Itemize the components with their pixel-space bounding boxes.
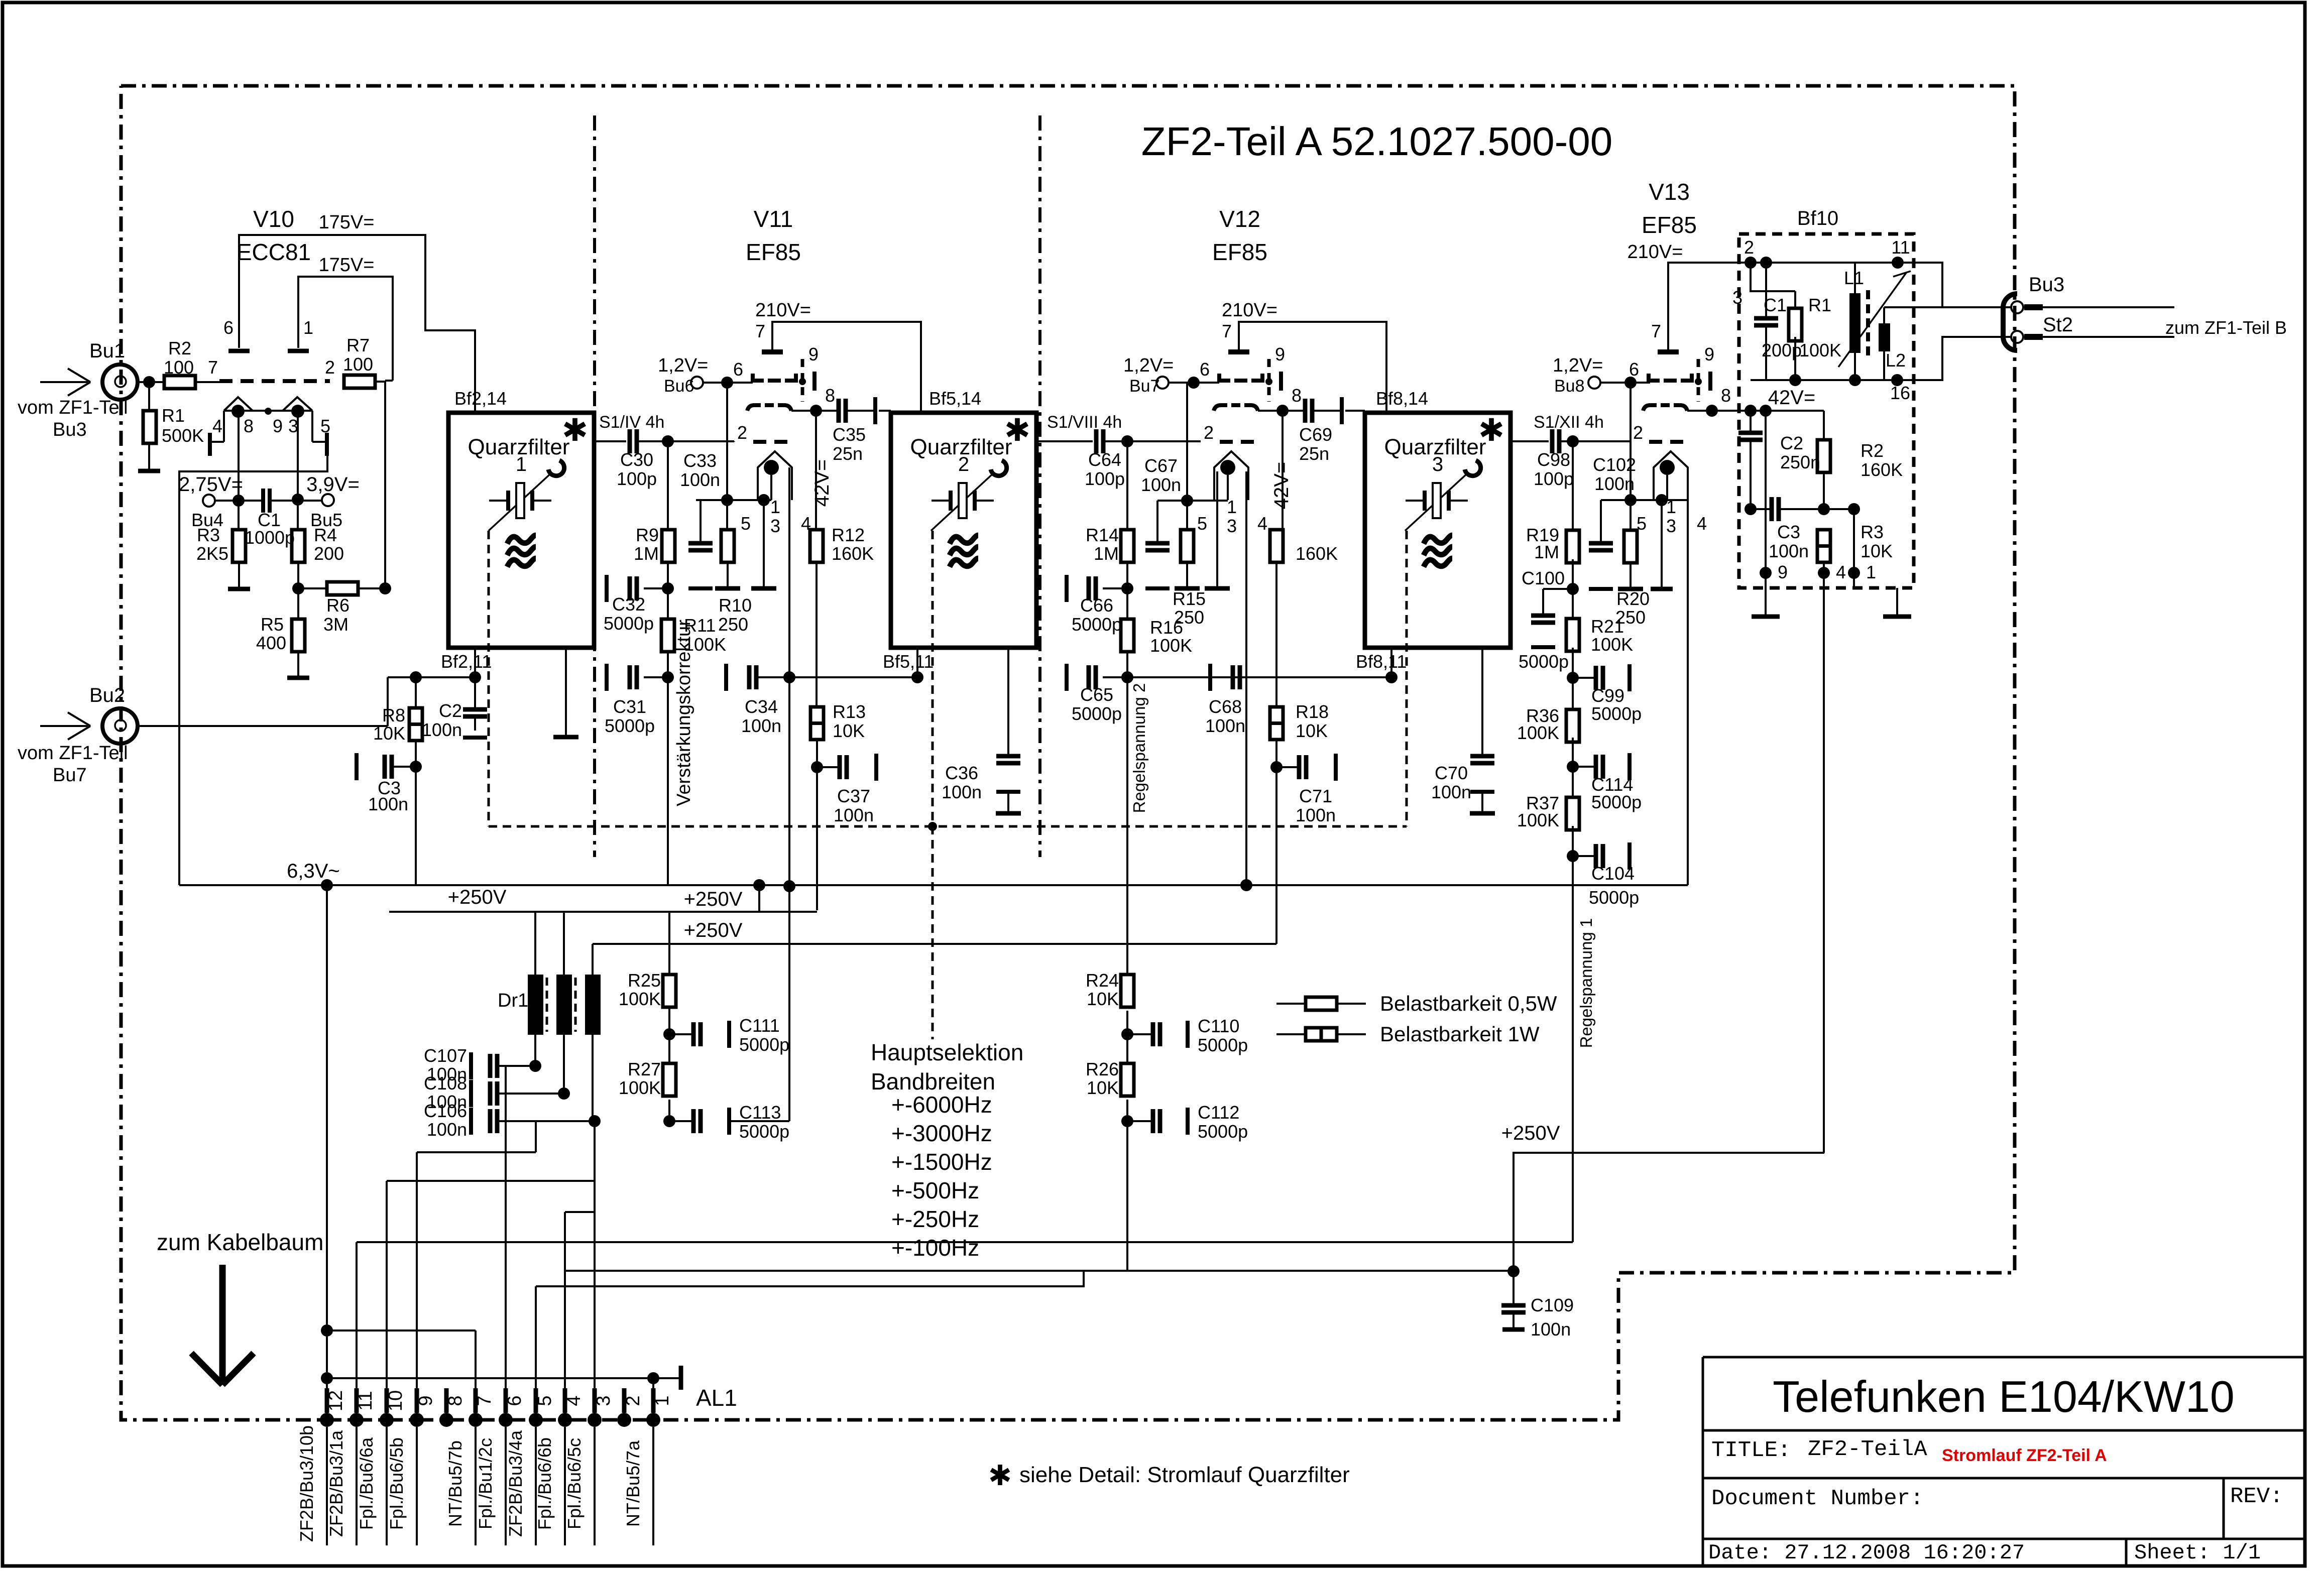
svg-text:Sheet: 1/1: Sheet: 1/1 bbox=[2134, 1541, 2261, 1565]
svg-text:✱: ✱ bbox=[988, 1460, 1012, 1491]
input arrow at Bu1 bbox=[40, 381, 88, 383]
connector Bu5 bbox=[322, 494, 334, 506]
resistor R19 bbox=[1572, 441, 1574, 530]
svg-text:4: 4 bbox=[1257, 513, 1267, 534]
node C114 bbox=[1567, 761, 1579, 773]
svg-text:5000p: 5000p bbox=[1072, 614, 1122, 635]
svg-text:100n: 100n bbox=[1531, 1319, 1571, 1340]
svg-text:7: 7 bbox=[474, 1395, 495, 1406]
svg-text:C110: C110 bbox=[1198, 1016, 1239, 1036]
svg-text:S1/VIII 4h: S1/VIII 4h bbox=[1047, 413, 1122, 432]
svg-text:1M: 1M bbox=[634, 543, 659, 564]
svg-text:R18: R18 bbox=[1296, 701, 1329, 722]
svg-text:C102: C102 bbox=[1593, 454, 1636, 475]
svg-text:210V=: 210V= bbox=[1222, 300, 1277, 321]
wire R7 to R6 bbox=[374, 381, 385, 383]
svg-text:C64: C64 bbox=[1088, 449, 1121, 470]
wire pin9 riser bbox=[416, 1152, 418, 1420]
resistor R25 bbox=[668, 912, 670, 975]
svg-text:100p: 100p bbox=[1534, 468, 1574, 489]
node C32/R9/R11 bbox=[662, 582, 674, 594]
svg-text:+-3000Hz: +-3000Hz bbox=[891, 1120, 992, 1146]
capacitor C32 bbox=[644, 587, 668, 589]
input arrow at Bu2 bbox=[40, 725, 88, 727]
svg-text:250: 250 bbox=[718, 614, 748, 635]
svg-text:Bu3: Bu3 bbox=[53, 419, 87, 440]
svg-text:100K: 100K bbox=[1517, 810, 1559, 830]
svg-text:R3: R3 bbox=[197, 525, 220, 545]
capacitor C65 bbox=[1103, 676, 1127, 678]
svg-text:vom ZF1-Teil: vom ZF1-Teil bbox=[18, 397, 128, 418]
svg-text:Bu2: Bu2 bbox=[89, 684, 125, 706]
svg-text:42V=: 42V= bbox=[1768, 387, 1816, 409]
capacitor C70 under QF3 bbox=[1481, 648, 1483, 756]
capacitor C1 bbox=[261, 489, 265, 513]
node C99/R21 bbox=[1567, 672, 1579, 684]
wire Bu2 to riser bbox=[138, 725, 388, 727]
ground bar under R15 bbox=[1175, 586, 1200, 591]
wire pin6 riser bbox=[505, 1066, 507, 1420]
svg-text:Bu6: Bu6 bbox=[664, 377, 694, 396]
capacitor C1 Bf10 bbox=[1765, 263, 1767, 318]
resistor R1 bbox=[148, 382, 150, 411]
grid3 row bbox=[1649, 374, 1660, 381]
resistor R18 bbox=[1270, 707, 1283, 740]
house lead ground V13 bbox=[1661, 500, 1663, 589]
pin bars bbox=[2024, 304, 2043, 310]
ground under R1 bbox=[138, 469, 160, 473]
node C100/R19/R21 bbox=[1567, 583, 1579, 595]
svg-text:C71: C71 bbox=[1299, 786, 1332, 806]
capacitor C64 bbox=[1094, 429, 1099, 453]
svg-text:4: 4 bbox=[212, 416, 222, 436]
svg-text:5: 5 bbox=[1197, 513, 1207, 534]
svg-text:6: 6 bbox=[504, 1395, 525, 1406]
svg-text:C100: C100 bbox=[1522, 568, 1565, 588]
trimmer diagonal QF3 bbox=[1405, 472, 1468, 531]
svg-text:6: 6 bbox=[733, 359, 743, 380]
svg-text:2: 2 bbox=[1633, 422, 1643, 443]
svg-text:25n: 25n bbox=[1299, 443, 1329, 464]
AL1 chassis wire bbox=[327, 1377, 653, 1379]
riser Bu7 to R15 bbox=[1186, 383, 1188, 530]
svg-text:1: 1 bbox=[770, 497, 780, 517]
V10 cathode triode A bbox=[224, 397, 253, 411]
svg-text:R4: R4 bbox=[314, 525, 337, 545]
QF3 bottom pin lead Bf8,11 bbox=[1390, 648, 1392, 677]
resistor R1 Bf10 bbox=[1794, 291, 1796, 308]
svg-text:100: 100 bbox=[164, 357, 194, 378]
svg-text:5000p: 5000p bbox=[739, 1034, 789, 1055]
wavy filter symbol QF1 bbox=[507, 535, 536, 544]
riser Bu6/g3 to R10 bbox=[726, 383, 728, 530]
svg-text:EF85: EF85 bbox=[746, 239, 801, 265]
wire pin11 riser bbox=[356, 1242, 358, 1420]
svg-text:100K: 100K bbox=[619, 989, 661, 1009]
svg-text:Bf2,14: Bf2,14 bbox=[454, 388, 507, 409]
svg-text:Fpl./Bu6/5b: Fpl./Bu6/5b bbox=[386, 1437, 407, 1530]
dash-dot circuit boundary frame bbox=[121, 86, 2015, 1420]
crystal symbol QF3 bbox=[1406, 500, 1425, 502]
svg-text:+250V: +250V bbox=[448, 886, 507, 908]
svg-text:Fpl./Bu6/6b: Fpl./Bu6/6b bbox=[534, 1437, 555, 1530]
wire 210V rail V12 to QF3 bbox=[1239, 322, 1386, 413]
svg-text:7: 7 bbox=[1651, 321, 1661, 341]
svg-text:2: 2 bbox=[1204, 422, 1214, 443]
trimmer diagonal QF2 bbox=[931, 472, 994, 531]
wire pin1 riser bbox=[652, 1378, 654, 1420]
svg-text:100n: 100n bbox=[1205, 715, 1245, 736]
svg-text:+-1500Hz: +-1500Hz bbox=[891, 1149, 992, 1175]
svg-text:ZF2-TeilA: ZF2-TeilA bbox=[1808, 1437, 1927, 1462]
svg-text:Regelspannung 1: Regelspannung 1 bbox=[1577, 918, 1595, 1048]
svg-text:C106: C106 bbox=[424, 1101, 467, 1121]
legend 1W resistor bbox=[1276, 1033, 1306, 1035]
svg-text:V11: V11 bbox=[754, 206, 793, 232]
svg-text:100p: 100p bbox=[617, 468, 657, 489]
svg-text:EF85: EF85 bbox=[1212, 239, 1267, 265]
capacitor C66 bbox=[1103, 587, 1127, 589]
svg-text:R6: R6 bbox=[326, 595, 350, 616]
svg-text:3: 3 bbox=[1732, 287, 1742, 308]
capacitor C69 bbox=[1283, 410, 1305, 412]
house wire V12 bbox=[1157, 500, 1228, 502]
svg-text:4: 4 bbox=[1836, 562, 1846, 582]
svg-text:25n: 25n bbox=[833, 443, 863, 464]
mid cathode node bbox=[265, 408, 272, 415]
AL1 pin 4 bbox=[558, 1413, 572, 1427]
wire Bf8,11 row bbox=[1127, 676, 1391, 678]
capacitor C3 Bf10 bbox=[1751, 508, 1772, 510]
svg-text:✱: ✱ bbox=[562, 413, 588, 448]
svg-text:8: 8 bbox=[445, 1395, 466, 1406]
wire pin10 riser bbox=[386, 1181, 388, 1420]
svg-text:7: 7 bbox=[208, 357, 218, 378]
resistor R11 bbox=[667, 588, 669, 619]
svg-text:7: 7 bbox=[1222, 321, 1232, 341]
svg-text:8: 8 bbox=[825, 385, 835, 406]
svg-text:R15: R15 bbox=[1173, 588, 1206, 609]
beam plate bar bbox=[1279, 372, 1283, 391]
svg-text:R7: R7 bbox=[346, 335, 370, 355]
cathode house bbox=[1214, 451, 1248, 500]
V10 grid dashed line pins 7/2 bbox=[219, 379, 330, 383]
resistor R6 bbox=[298, 587, 327, 589]
+250V rail A bbox=[389, 911, 817, 913]
Quarzfilter1 bottom pin lead bbox=[474, 649, 476, 677]
svg-text:R1: R1 bbox=[1808, 295, 1831, 315]
svg-text:C112: C112 bbox=[1198, 1102, 1239, 1123]
+250V wire bottom bbox=[1514, 1153, 1824, 1271]
svg-text:Bf5,11: Bf5,11 bbox=[883, 651, 934, 672]
connector Bu4 bbox=[203, 495, 215, 507]
AL1 pin 12 bbox=[320, 1413, 334, 1427]
title block outline bbox=[1702, 1357, 1704, 1566]
svg-text:C32: C32 bbox=[612, 594, 645, 615]
pin 1 lead bbox=[1853, 509, 1855, 573]
svg-text:zum ZF1-Teil B: zum ZF1-Teil B bbox=[2165, 317, 2287, 338]
svg-text:R16: R16 bbox=[1150, 617, 1183, 638]
node at Bu1/R1 bbox=[143, 376, 155, 388]
resistor R26 bbox=[1126, 1034, 1128, 1063]
pin8 node V11 bbox=[810, 405, 822, 417]
resistor R5 bbox=[297, 588, 299, 619]
node C111 bbox=[663, 1028, 675, 1040]
svg-text:C34: C34 bbox=[745, 696, 778, 717]
svg-text:1: 1 bbox=[1866, 562, 1876, 582]
svg-text:R1: R1 bbox=[162, 405, 185, 426]
svg-text:R25: R25 bbox=[628, 970, 661, 991]
capacitor C111 bbox=[669, 1033, 693, 1035]
inductor L2 bbox=[1879, 323, 1890, 351]
node wire Bf10 top bbox=[1739, 262, 1898, 264]
svg-text:Dr1: Dr1 bbox=[498, 990, 528, 1011]
resistor R20 bbox=[1624, 530, 1637, 563]
svg-text:R27: R27 bbox=[628, 1059, 661, 1079]
capacitor C2 Bf10 bbox=[1750, 411, 1752, 433]
ground under R3 bbox=[228, 587, 250, 591]
Dr1 winding leads bbox=[534, 912, 536, 975]
svg-text:R21: R21 bbox=[1591, 616, 1624, 637]
svg-text:C2: C2 bbox=[439, 700, 462, 721]
node C3 row bbox=[1745, 503, 1757, 515]
svg-text:Bf8,14: Bf8,14 bbox=[1376, 388, 1428, 409]
svg-text:5000p: 5000p bbox=[605, 715, 655, 736]
svg-text:1,2V=: 1,2V= bbox=[658, 355, 708, 376]
connector Bu3/St2 bracket bbox=[2003, 294, 2017, 350]
svg-text:C98: C98 bbox=[1537, 449, 1570, 470]
node C112 bbox=[1121, 1115, 1133, 1127]
node C31/R11 bbox=[662, 671, 674, 683]
svg-text:Bu8: Bu8 bbox=[1554, 377, 1585, 396]
ground bar under R10 bbox=[715, 586, 740, 591]
svg-text:R8: R8 bbox=[382, 705, 405, 725]
wavy filter symbol QF3 bbox=[1424, 535, 1452, 544]
resistor R9 bbox=[667, 441, 669, 530]
Quarzfilter 2 box bbox=[891, 413, 1036, 648]
svg-text:Bf10: Bf10 bbox=[1797, 207, 1838, 229]
svg-text:Verstärkungskorrektur: Verstärkungskorrektur bbox=[673, 620, 694, 806]
wire Bu1 to R2 bbox=[138, 381, 164, 383]
svg-text:5: 5 bbox=[741, 513, 751, 534]
svg-text:✱: ✱ bbox=[1478, 413, 1504, 448]
resistor R14 bbox=[1126, 441, 1128, 530]
connector Bu1 bbox=[102, 365, 138, 400]
svg-text:NT/Bu5/7a: NT/Bu5/7a bbox=[623, 1440, 643, 1527]
svg-text:vom ZF1-Teil: vom ZF1-Teil bbox=[18, 743, 128, 764]
svg-text:8: 8 bbox=[1292, 385, 1302, 406]
cathode arcs bbox=[1643, 405, 1657, 411]
svg-text:C67: C67 bbox=[1144, 455, 1178, 476]
AL1 pin 1 bbox=[646, 1413, 660, 1427]
svg-text:Fpl./Bu6/5c: Fpl./Bu6/5c bbox=[564, 1438, 585, 1529]
svg-text:Belastbarkeit 1W: Belastbarkeit 1W bbox=[1380, 1022, 1540, 1046]
variable arrow bbox=[1838, 272, 1907, 367]
svg-text:C69: C69 bbox=[1299, 424, 1332, 445]
svg-text:L2: L2 bbox=[1886, 350, 1906, 371]
wire pin3 riser bbox=[594, 1121, 596, 1420]
resistor 160K screen V12 bbox=[1282, 411, 1284, 530]
svg-text:Bu7: Bu7 bbox=[53, 765, 87, 786]
Bf10 bottom rail bbox=[1751, 379, 1897, 381]
svg-text:2: 2 bbox=[958, 453, 969, 475]
svg-text:175V=: 175V= bbox=[319, 212, 375, 233]
Quarzfilter 1 box bbox=[448, 413, 594, 648]
svg-text:100: 100 bbox=[343, 354, 373, 375]
svg-text:2: 2 bbox=[737, 422, 747, 443]
svg-text:100K: 100K bbox=[619, 1077, 661, 1098]
QF2 bottom pin lead Bf5,11 bbox=[916, 648, 918, 677]
pin8 node V12 bbox=[1276, 405, 1289, 417]
svg-text:C2: C2 bbox=[1780, 433, 1803, 453]
svg-text:5000p: 5000p bbox=[739, 1121, 789, 1142]
svg-text:5000p: 5000p bbox=[1519, 651, 1569, 672]
svg-text:R5: R5 bbox=[261, 614, 284, 635]
svg-text:ZF2-Teil A 52.1027.500-00: ZF2-Teil A 52.1027.500-00 bbox=[1141, 119, 1612, 164]
resistor R15 bbox=[1181, 530, 1194, 562]
capacitor C31 bbox=[644, 676, 668, 678]
svg-text:100n: 100n bbox=[741, 715, 781, 736]
svg-text:1: 1 bbox=[516, 453, 527, 475]
svg-text:C108: C108 bbox=[424, 1073, 467, 1094]
svg-text:100n: 100n bbox=[422, 719, 462, 740]
node R4/R5/R6 bbox=[292, 582, 304, 594]
wire pin5 riser bbox=[535, 1286, 537, 1420]
svg-text:C33: C33 bbox=[683, 450, 717, 471]
capacitor C99 bbox=[1573, 677, 1596, 679]
svg-text:5: 5 bbox=[534, 1395, 555, 1406]
svg-text:Date: 27.12.2008 16:20:27: Date: 27.12.2008 16:20:27 bbox=[1708, 1541, 2025, 1565]
svg-text:9: 9 bbox=[1778, 562, 1788, 582]
svg-text:100n: 100n bbox=[834, 805, 874, 825]
capacitor C34 bbox=[747, 665, 752, 689]
svg-text:5000p: 5000p bbox=[1198, 1121, 1248, 1142]
svg-text:1: 1 bbox=[303, 317, 313, 338]
core dashes bbox=[1866, 290, 1870, 356]
svg-text:5000p: 5000p bbox=[1589, 887, 1639, 908]
C1 riser bbox=[1751, 263, 1795, 291]
svg-text:NT/Bu5/7b: NT/Bu5/7b bbox=[445, 1440, 466, 1527]
resistor R2 bbox=[164, 376, 195, 389]
resistor R3 Bf10 bbox=[1817, 530, 1830, 562]
svg-text:10K: 10K bbox=[1087, 989, 1119, 1009]
capacitor C98 bbox=[1550, 429, 1555, 453]
hook QF2 bbox=[991, 460, 1007, 476]
svg-text:C68: C68 bbox=[1209, 696, 1242, 717]
node C104 bbox=[1567, 850, 1579, 862]
QF1 ground pin bbox=[565, 648, 567, 737]
svg-text:C35: C35 bbox=[833, 424, 866, 445]
dashed enclosure bottom bbox=[489, 825, 1407, 828]
svg-text:R14: R14 bbox=[1086, 525, 1119, 545]
svg-text:100p: 100p bbox=[1085, 468, 1125, 489]
svg-text:C111: C111 bbox=[739, 1015, 780, 1036]
svg-text:TITLE:: TITLE: bbox=[1711, 1438, 1791, 1463]
svg-text:ECC81: ECC81 bbox=[237, 239, 311, 265]
svg-text:100K: 100K bbox=[1591, 634, 1633, 655]
svg-text:100n: 100n bbox=[368, 794, 408, 814]
svg-text:160K: 160K bbox=[1861, 459, 1903, 480]
grid3 dashed lead bbox=[801, 359, 804, 402]
svg-text:100K: 100K bbox=[1517, 722, 1559, 743]
svg-text:10K: 10K bbox=[1087, 1077, 1119, 1098]
Bu3 pin circle bbox=[2011, 301, 2023, 313]
capacitor C112 bbox=[1127, 1120, 1153, 1122]
resistor R10 bbox=[721, 530, 734, 562]
svg-text:+-250Hz: +-250Hz bbox=[891, 1206, 979, 1232]
wire pin4 riser bbox=[564, 1212, 566, 1420]
capacitor C30 bbox=[628, 429, 632, 453]
beam plate bar bbox=[1708, 372, 1712, 391]
svg-text:EF85: EF85 bbox=[1642, 212, 1697, 238]
svg-text:160K: 160K bbox=[1296, 543, 1338, 564]
svg-text:100n: 100n bbox=[942, 782, 982, 802]
dash-dot section divider 2 bbox=[1038, 115, 1041, 857]
svg-text:1,2V=: 1,2V= bbox=[1553, 355, 1603, 376]
node C66/R14/R16 bbox=[1121, 582, 1133, 594]
svg-text:3: 3 bbox=[593, 1395, 614, 1406]
+250V rail B bbox=[593, 943, 1276, 945]
AL1 pin 8 bbox=[439, 1413, 453, 1427]
svg-text:9: 9 bbox=[1275, 344, 1285, 365]
return wire to AL1 pin 11 bbox=[357, 1241, 1573, 1243]
svg-text:4: 4 bbox=[563, 1395, 585, 1406]
svg-text:C99: C99 bbox=[1591, 685, 1624, 706]
resistor R4 bbox=[297, 411, 299, 530]
beam plate bar bbox=[812, 372, 817, 391]
svg-text:+-100Hz: +-100Hz bbox=[891, 1235, 979, 1261]
svg-text:8: 8 bbox=[244, 416, 254, 436]
svg-text:Stromlauf ZF2-Teil A: Stromlauf ZF2-Teil A bbox=[1942, 1446, 2107, 1465]
trimmer diagonal QF1 bbox=[489, 472, 552, 531]
svg-text:C113: C113 bbox=[739, 1102, 781, 1123]
capacitor C104 bbox=[1573, 855, 1596, 857]
grid3 dashed lead bbox=[1697, 359, 1700, 402]
svg-text:R13: R13 bbox=[833, 701, 866, 722]
+250V riser from pin 4 bbox=[1823, 573, 1825, 1153]
wire Bf2,11 bbox=[388, 676, 475, 678]
svg-text:100n: 100n bbox=[1594, 473, 1635, 494]
dashed line QF2 to Hauptselektion bbox=[932, 531, 934, 1039]
capacitor C114 bbox=[1573, 766, 1596, 768]
svg-text:400: 400 bbox=[256, 633, 286, 653]
svg-text:Bu1: Bu1 bbox=[89, 340, 125, 362]
svg-text:10K: 10K bbox=[1861, 541, 1893, 561]
svg-text:R2: R2 bbox=[168, 338, 191, 358]
cathode house bbox=[1654, 451, 1688, 500]
svg-text:2: 2 bbox=[1744, 237, 1754, 258]
svg-text:6: 6 bbox=[223, 317, 234, 338]
svg-text:S1/IV 4h: S1/IV 4h bbox=[599, 413, 664, 432]
svg-text:100n: 100n bbox=[427, 1119, 467, 1140]
node R6 right bbox=[379, 582, 391, 594]
crystal symbol QF1 bbox=[489, 500, 508, 502]
dash-dot section divider 1 bbox=[593, 115, 596, 857]
svg-text:C31: C31 bbox=[613, 696, 646, 717]
svg-text:Bf5,14: Bf5,14 bbox=[929, 388, 981, 409]
resistor R24 bbox=[1121, 975, 1134, 1007]
svg-text:Bu3: Bu3 bbox=[2029, 274, 2064, 296]
cathode tail to pin8 bbox=[791, 410, 816, 412]
svg-text:S1/XII 4h: S1/XII 4h bbox=[1534, 413, 1604, 432]
grid3 dashed lead bbox=[1267, 359, 1271, 402]
Regelspannung 1 wire down bbox=[1572, 856, 1574, 1242]
svg-text:Bf2,11: Bf2,11 bbox=[441, 651, 492, 672]
big down arrow bbox=[219, 1265, 226, 1382]
svg-text:100K: 100K bbox=[1799, 340, 1841, 360]
wavy filter symbol QF2 bbox=[950, 535, 978, 544]
capacitor C35 bbox=[816, 410, 839, 412]
